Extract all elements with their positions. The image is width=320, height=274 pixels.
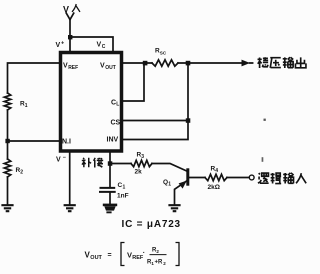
svg-text:V: V	[97, 42, 102, 49]
svg-text:1: 1	[123, 185, 126, 191]
svg-text:OUT: OUT	[90, 255, 102, 261]
svg-text:3: 3	[141, 154, 144, 160]
svg-text:2kΩ: 2kΩ	[208, 184, 220, 191]
svg-text:+: +	[61, 41, 64, 47]
svg-text:Q: Q	[163, 179, 168, 186]
svg-text:1: 1	[168, 182, 171, 188]
svg-text:N.I: N.I	[62, 139, 71, 146]
svg-text:V: V	[56, 42, 61, 49]
svg-text:REF: REF	[68, 65, 78, 71]
svg-text:=: =	[108, 252, 112, 259]
svg-text:L: L	[116, 102, 119, 108]
svg-text:+R: +R	[155, 260, 164, 266]
svg-text:·: ·	[143, 250, 145, 257]
svg-text:V: V	[56, 157, 61, 164]
svg-text:IC = μA723: IC = μA723	[122, 219, 181, 230]
svg-text:4: 4	[215, 168, 218, 174]
svg-text:1: 1	[25, 103, 28, 109]
svg-text:CS: CS	[111, 120, 121, 127]
svg-text:INV: INV	[107, 137, 119, 144]
svg-text:2k: 2k	[135, 169, 143, 176]
svg-text:OUT: OUT	[105, 65, 116, 71]
svg-text:−: −	[63, 155, 66, 161]
svg-text:2: 2	[20, 170, 23, 176]
svg-text:C: C	[102, 44, 106, 50]
svg-text:V: V	[63, 5, 69, 15]
svg-text:SC: SC	[160, 51, 167, 56]
svg-text:1nF: 1nF	[117, 193, 129, 200]
svg-text:V: V	[127, 251, 132, 260]
